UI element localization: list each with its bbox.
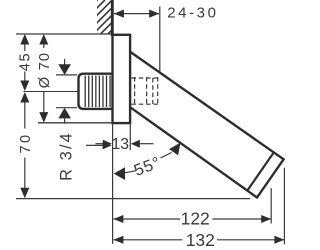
dimension 13 (plate thickness): [96, 136, 154, 153]
svg-text:122: 122: [181, 209, 210, 229]
spout end cap inner line: [247, 152, 273, 190]
threaded nipple: [79, 74, 114, 109]
svg-text:24-30: 24-30: [167, 5, 218, 22]
extension line plate top edge: [16, 33, 111, 35]
spout body (55 degree tube): [130, 52, 283, 198]
dimension 70 (vertical, centerline to outlet bottom): [18, 92, 34, 198]
dimension 122 (wall to aerator): [113, 209, 271, 229]
dimension 45 (vertical, plate top to centerline): [17, 34, 33, 91]
extension line aerator face: [270, 188, 272, 223]
svg-text:132: 132: [186, 230, 215, 250]
wall face line: [111, 0, 114, 36]
svg-text:Ø 70: Ø 70: [37, 52, 53, 88]
extension line below plate (plate front): [129, 124, 131, 150]
extension line plate bottom edge: [38, 122, 111, 124]
svg-text:45: 45: [17, 52, 33, 71]
thread diameter arrows (top and bottom of nipple): [56, 59, 77, 124]
svg-text:70: 70: [18, 132, 34, 153]
svg-text:13: 13: [112, 136, 130, 153]
leader arrow for R 3/4: [86, 141, 112, 149]
dimension 24-30 (installation depth): [114, 5, 219, 73]
extension line outlet bottom: [16, 198, 250, 200]
thread lines: [85, 76, 110, 108]
centerline of threaded connection: [24, 91, 79, 93]
svg-text:R 3/4: R 3/4: [57, 131, 75, 181]
svg-text:55°: 55°: [132, 153, 164, 180]
wall hatching: [64, 0, 142, 34]
dimension 55 degrees (spout angle): [114, 143, 181, 181]
dimension 132 (wall to spout tip): [113, 230, 284, 250]
hidden connector dashed lines: [132, 77, 159, 105]
wall plate (escutcheon): [113, 35, 131, 123]
dimension Ø 70 (vertical, plate diameter): [37, 34, 53, 123]
extension line spout tip: [283, 168, 285, 245]
extension line below plate (wall face): [112, 124, 114, 244]
